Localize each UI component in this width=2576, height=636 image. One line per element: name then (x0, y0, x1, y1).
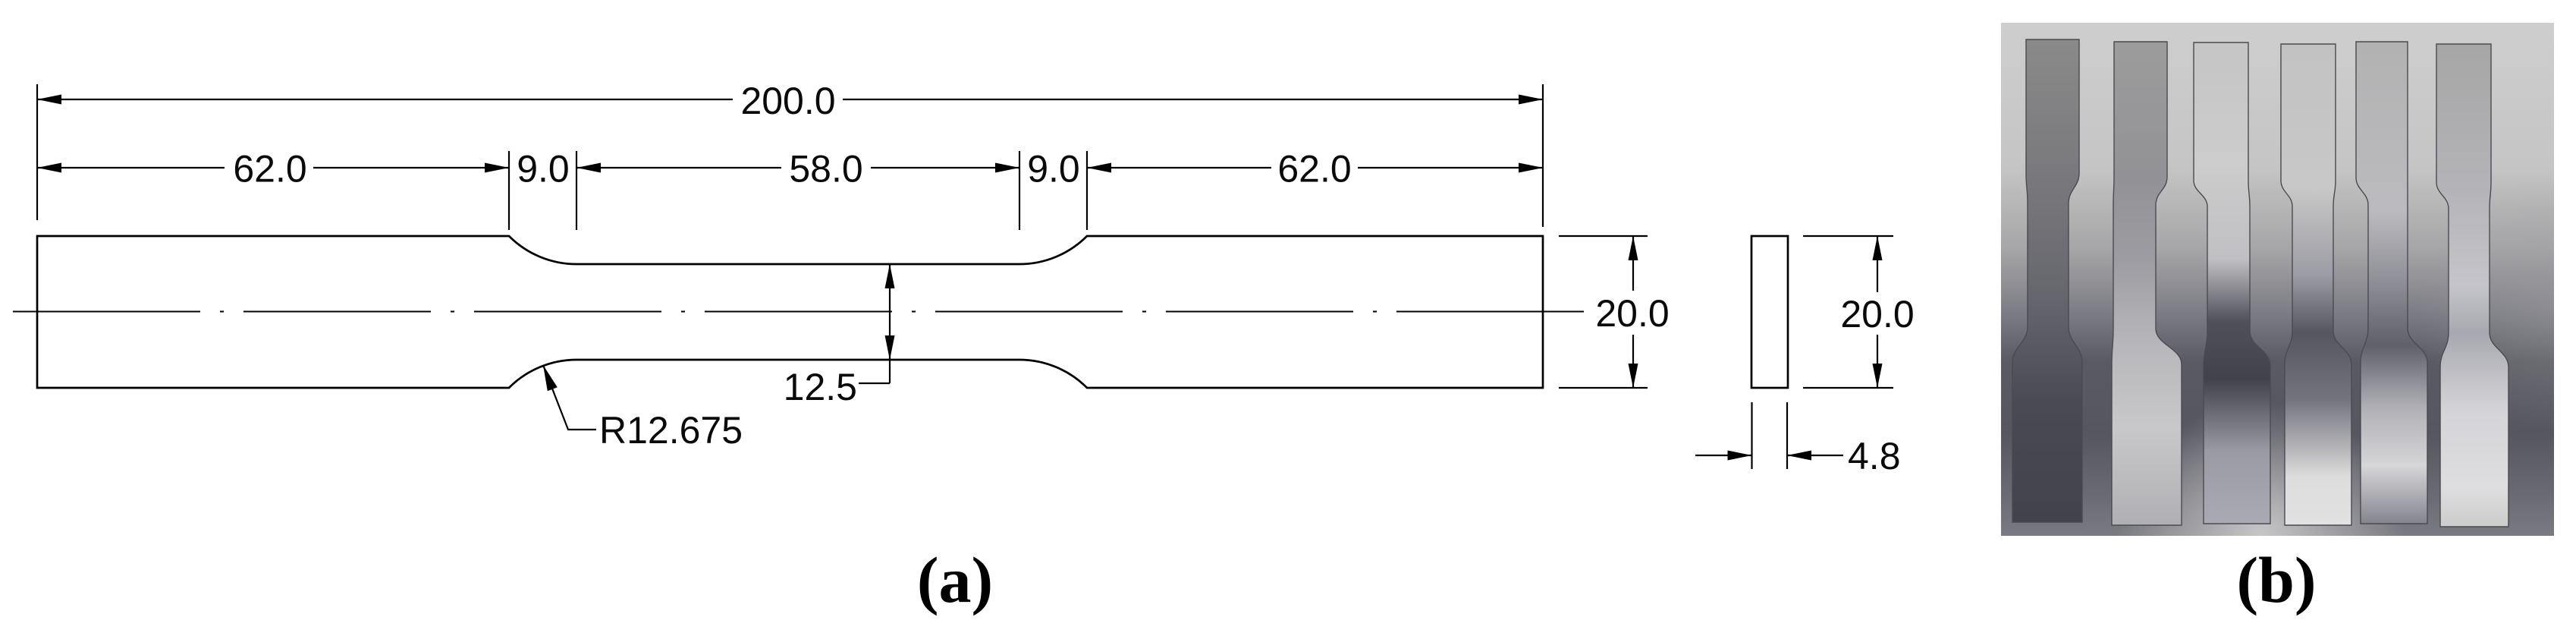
extension line 20.0 side bottom (1803, 387, 1893, 389)
svg-text:58.0: 58.0 (789, 148, 862, 190)
photo specimen 1 (2012, 39, 2082, 522)
dimension 200.0 line left (37, 99, 733, 100)
specimen front-view outline (37, 236, 1543, 388)
dimension 200.0 arrow right (1519, 95, 1543, 105)
dimension 62.0 right line b (1358, 167, 1543, 168)
photo specimen 6 (2436, 44, 2508, 527)
svg-text:(a): (a) (917, 543, 993, 616)
extension line 20.0 front top (1559, 235, 1648, 237)
svg-text:9.0: 9.0 (517, 148, 570, 190)
dimension 200.0 arrow left (37, 95, 61, 105)
photo specimen 2 (2112, 42, 2182, 525)
dimension 58.0 arrow b (995, 163, 1019, 173)
photo specimen 5 (2356, 42, 2427, 524)
dimension 12.5 line (889, 264, 891, 383)
dimension 62.0 right arrow a (1087, 163, 1111, 173)
svg-text:4.8: 4.8 (1848, 435, 1901, 477)
dimension 62.0 right line a (1087, 167, 1271, 168)
extension line 9.0-right b (1086, 151, 1088, 230)
dimension 4.8 line right (1787, 455, 1843, 456)
svg-text:20.0: 20.0 (1595, 292, 1669, 335)
side view rectangle (1751, 236, 1788, 388)
photo specimen 3 (2194, 43, 2270, 524)
dimension 4.8 line left (1695, 455, 1751, 456)
dimension 62.0 left arrow b (485, 163, 509, 173)
svg-text:(b): (b) (2236, 543, 2316, 616)
dimension 20.0 front arrow down (1629, 364, 1638, 388)
extension line 9.0-left b (576, 151, 577, 230)
dimension 12.5 arrow down (885, 335, 895, 360)
dimension 20.0 side line bottom (1877, 335, 1878, 388)
svg-text:20.0: 20.0 (1840, 293, 1914, 335)
svg-text:R12.675: R12.675 (599, 409, 743, 452)
extension line 4.8 left (1751, 402, 1752, 469)
extension line 9.0-right a (1019, 151, 1020, 230)
dimension 20.0 side arrow down (1873, 364, 1883, 388)
dimension 12.5 arrow up (885, 264, 895, 288)
dimension 20.0 front line top (1632, 236, 1634, 291)
dimension 58.0 arrow a (576, 163, 601, 173)
dimension 4.8 arrow right (1787, 451, 1811, 461)
dimension 58.0 line a (576, 167, 781, 168)
extension line 20.0 front bottom (1559, 387, 1648, 389)
dimension 200.0 line right (843, 99, 1543, 100)
svg-text:62.0: 62.0 (1277, 148, 1351, 190)
photo specimen 4 (2281, 44, 2351, 525)
svg-text:200.0: 200.0 (740, 80, 835, 122)
dimension 20.0 front arrow up (1629, 236, 1638, 260)
extension line right (x=2034) (1542, 84, 1544, 227)
dimension 12.5 leader (859, 383, 890, 384)
dimension 58.0 line b (871, 167, 1019, 168)
extension line 9.0-left a (508, 151, 510, 230)
extension line 20.0 side top (1803, 235, 1893, 237)
dimension 20.0 side arrow up (1873, 236, 1883, 260)
leader R12.675 line (543, 365, 596, 430)
photo panel background (2001, 23, 2554, 536)
svg-text:9.0: 9.0 (1027, 148, 1080, 190)
centerline (front view) (13, 311, 1584, 313)
svg-text:12.5: 12.5 (784, 366, 857, 408)
svg-text:62.0: 62.0 (233, 148, 306, 190)
leader R12.675 arrow (543, 365, 558, 391)
dimension 20.0 front line bottom (1632, 335, 1634, 388)
dimension 62.0 left line a (37, 167, 225, 168)
dimension 62.0 left arrow a (37, 163, 61, 173)
dimension 62.0 left line b (313, 167, 509, 168)
dimension 4.8 arrow left (1728, 451, 1752, 461)
extension line left (x=49) (36, 84, 38, 220)
dimension 62.0 right arrow b (1519, 163, 1543, 173)
extension line 4.8 right (1786, 402, 1788, 469)
dimension 20.0 side line top (1877, 236, 1878, 292)
